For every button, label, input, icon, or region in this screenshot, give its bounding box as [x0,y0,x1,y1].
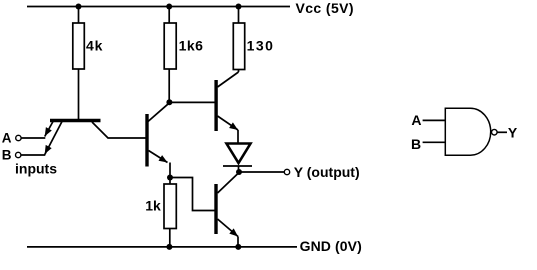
gate output bubble [492,129,498,135]
svg-text:A: A [411,112,421,128]
wire Q4 emitter to GND [237,237,239,247]
transistor Q4 base bar [214,184,217,234]
svg-text:1k6: 1k6 [179,38,204,54]
junction output node [236,169,242,175]
GND rail [27,246,297,248]
junction GND/1k [166,244,172,250]
svg-text:B: B [411,136,421,152]
svg-text:Y (output): Y (output) [294,164,360,180]
NAND gate body U1 [445,108,490,155]
Q1 emitter B [45,122,62,155]
Q4 collector [218,173,240,194]
Vcc rail [27,6,290,8]
svg-text:A: A [2,130,12,145]
wire Vcc to 4k [78,7,80,24]
gate output lead [497,131,507,133]
input terminal A [16,135,21,140]
wire node to Q4 base [170,178,216,211]
transistor Q3 base bar [214,80,217,131]
resistor 4k [73,23,85,69]
junction Vcc/1k6 [166,4,172,10]
wire node to Q3 base [169,101,215,103]
svg-text:B: B [2,147,12,162]
Q3 collector [218,72,239,87]
wire 1k6 to node [168,69,170,102]
junction GND/Q4 [235,244,241,250]
wire Q3 emitter to diode anode [237,130,239,144]
wire emitter A to terminal A [21,137,45,139]
wire 130 to Q3 collector [238,70,240,73]
junction Vcc/130 [236,4,242,10]
diode cathode bar [223,165,252,167]
transistor Q1 base bar [50,119,101,122]
wire 4k to Q1 base [78,69,80,120]
Q4 emitter [218,219,239,237]
wire 1k to GND [169,229,171,247]
wire Vcc to 1k6 [168,7,170,24]
Q1 collector wire to Q2 base [92,122,146,138]
wire output node to terminal Y [239,171,285,173]
input terminal B [16,152,21,157]
svg-text:Vcc (5V): Vcc (5V) [296,0,354,16]
wire Q2 emitter down to node [169,163,171,178]
gate input lead A [423,119,446,121]
diode anode triangle [227,144,251,164]
wire node to 1k [169,178,171,185]
gate input lead B [423,141,446,143]
svg-text:inputs: inputs [15,161,57,177]
transistor Q2 base bar [145,114,148,167]
svg-text:1k: 1k [145,197,161,213]
Q2 emitter [149,151,168,163]
resistor 130 [233,23,244,70]
junction node Q2 collector / Q3 base [166,99,172,105]
svg-text:130: 130 [247,38,275,54]
wire diode to output node [238,166,240,172]
Q1 emitter A [45,122,53,137]
resistor 1k [164,184,176,229]
resistor 1k6 [164,23,176,69]
Q2 collector [148,103,169,122]
junction node Q2 emitter / 1k / Q4 base [167,175,173,181]
Q3 emitter [218,116,239,130]
output terminal Y [284,169,289,174]
junction Vcc/4k [76,4,82,10]
wire emitter B to terminal B [21,154,45,156]
svg-text:GND (0V): GND (0V) [300,238,362,254]
svg-text:4k: 4k [86,38,103,54]
wire Vcc to 130 [238,7,240,23]
svg-text:Y: Y [508,125,518,141]
